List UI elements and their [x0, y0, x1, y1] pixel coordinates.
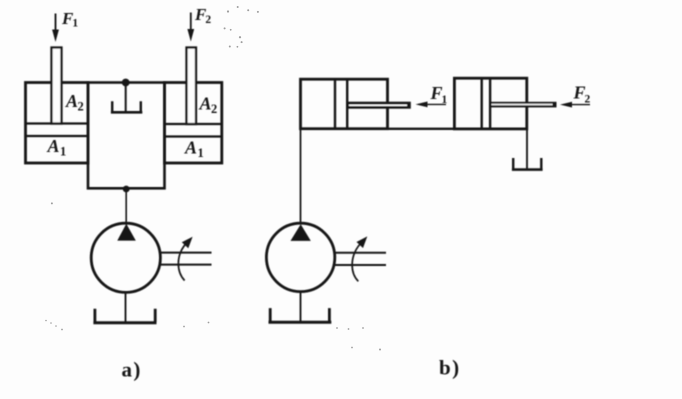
svg-text:F2: F2: [573, 83, 591, 106]
svg-text:F2: F2: [194, 5, 211, 26]
svg-text:F1: F1: [430, 83, 448, 106]
svg-text:A2: A2: [65, 91, 84, 114]
svg-text:A1: A1: [47, 136, 67, 159]
svg-text:a): a): [122, 358, 142, 382]
svg-text:A2: A2: [199, 94, 218, 117]
svg-text:A1: A1: [184, 138, 204, 161]
svg-text:F1: F1: [61, 9, 78, 30]
svg-text:b): b): [439, 356, 460, 380]
